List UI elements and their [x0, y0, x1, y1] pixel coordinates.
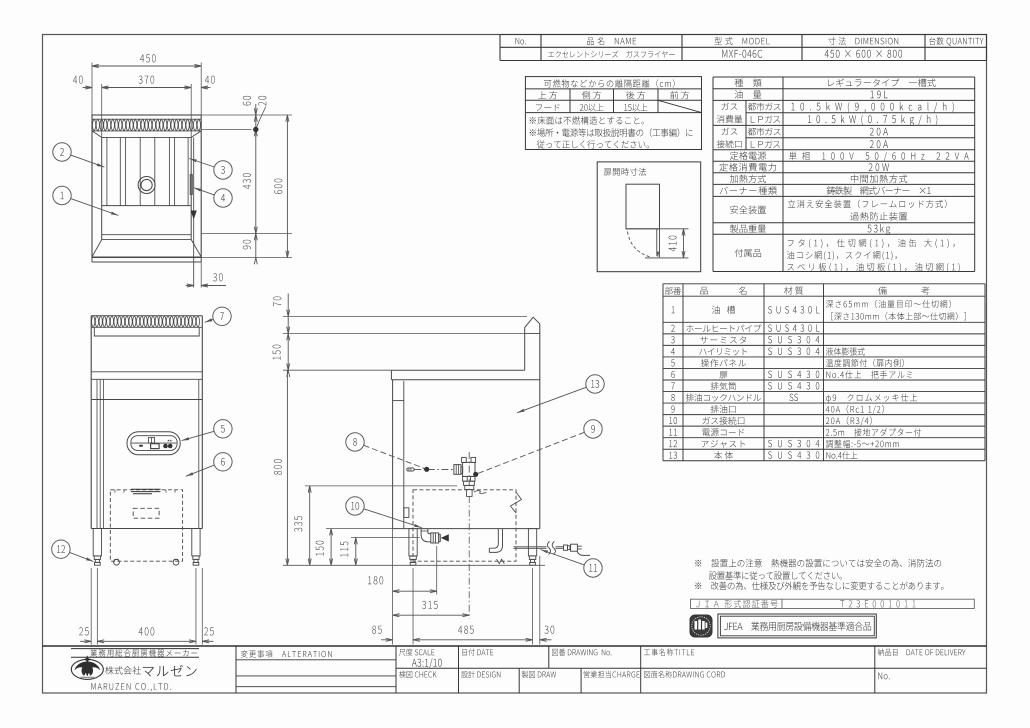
side view: break mark on dashed box — [511, 492, 522, 513]
plan view: drain hole circles — [138, 177, 155, 194]
plan view: thermostat bulb on right wall — [190, 175, 192, 195]
plan view: front shelf edge double lines — [102, 234, 192, 236]
callout 6 (door) — [186, 465, 215, 476]
side view: power cord with plug (item 11) — [514, 546, 547, 548]
open door hanging down (double line) — [656, 229, 658, 256]
plan view: tank floor fin lines — [106, 137, 108, 205]
dimension 410 (door open drop) — [683, 229, 685, 258]
dimension 70 (flue cap height) — [283, 315, 527, 317]
dimension chain 60 / 430 / 90 (depth segments) — [255, 104, 257, 258]
front view: left panel seam lines — [96, 379, 98, 528]
parts row 7 (排気筒) — [671, 383, 675, 390]
dimension 600 (overall depth) — [286, 115, 288, 258]
side view: drain cock handle rod (hidden, dashed) — [414, 468, 454, 470]
door-open side profile rectangle — [626, 184, 660, 229]
title cell — [644, 649, 694, 656]
JIA certification number box — [691, 599, 975, 608]
scale cell — [399, 649, 434, 656]
callout 12 (adjuster) — [70, 552, 94, 561]
plan right-side extension lines — [201, 114, 292, 116]
parts table header — [665, 287, 681, 295]
side view: front face and door face lines — [392, 380, 394, 529]
maker cell: Maruzen company logo block — [71, 648, 199, 650]
side view: gas inlet pipe hook at bottom — [489, 529, 498, 549]
plan view: tank side walls — [101, 137, 103, 239]
side view: flue chimney with cap — [525, 317, 540, 370]
side view: gas connection marker zigzag — [497, 559, 505, 563]
callout 8 (drain cock handle) — [364, 445, 427, 469]
alteration record rows — [236, 659, 396, 661]
front view: body side edges — [90, 316, 92, 529]
door open bottom edge line — [645, 257, 689, 259]
spec rows: labels — [735, 79, 762, 87]
side view: drain outlet elbow with cock handle (item 10) — [421, 529, 431, 542]
header table row: product name / model / dimension — [548, 51, 675, 58]
parts row 10 (ガス接続口) — [669, 417, 677, 424]
front view: oil can casters — [114, 559, 120, 565]
front view: left leg with adjuster foot (item 12) — [93, 529, 101, 556]
title header table (No./NAME/MODEL/DIMENSION/QUANTITY) — [500, 34, 987, 36]
dimension 150 (backsplash height) — [283, 333, 527, 335]
parts row 8 (排油コックハンドル) — [671, 394, 675, 401]
title block outer and grid — [43, 645, 987, 647]
dimension 800 (body height) — [283, 369, 391, 371]
side view: front leg — [409, 529, 417, 556]
side view: ground line extension — [283, 564, 420, 566]
flammables clearance note table — [525, 77, 701, 150]
plan view: tank front edge — [102, 205, 192, 207]
door swing arc (dashed) — [628, 232, 650, 257]
parts row 4 (ハイリミット) — [671, 348, 675, 355]
plan view: flue scallop band (top) — [92, 118, 201, 120]
header table column titles — [515, 38, 525, 45]
dimension 315 (gas valve offset) — [468, 496, 470, 619]
front view: control panel pill (item 5) — [127, 432, 180, 455]
JFEA certified product label box — [718, 614, 876, 638]
parts row 9 (排油口) — [671, 406, 674, 413]
callout 1 (oil tank) — [71, 199, 119, 216]
plan view: hidden feature line with down arrow marker — [193, 137, 195, 287]
maker cell: company name text — [105, 666, 141, 674]
dimension 180 (drain offset) — [392, 529, 394, 645]
front view: body bottom line — [91, 528, 202, 530]
date cell — [462, 649, 493, 656]
dimension 335 (oil can space height) — [305, 485, 457, 487]
callout 2 (hole heat pipe) — [71, 155, 105, 167]
maker cell: swallow bird emblem — [71, 659, 103, 679]
callout 4 (high limit) — [194, 188, 215, 195]
parts row 12 (アジャスト) — [669, 440, 677, 447]
diagonal strike in front-clearance cell — [658, 100, 702, 112]
check / design / draw / charge cells — [399, 671, 437, 678]
front view: oil can label strip — [131, 489, 161, 494]
side view: interior oil-can space (dashed box) — [413, 490, 516, 561]
dimension 450 (overall width) — [91, 63, 93, 116]
side view: drain valve union nut — [454, 465, 461, 475]
parts row 11 (電源コード) — [669, 429, 677, 436]
side view: counter top lines — [391, 369, 524, 371]
parts row 13 (本 体) — [669, 452, 677, 459]
parts row 2 (ホールヒートパイプ) — [671, 325, 675, 332]
flue outlet position dot with 20 label — [253, 127, 258, 132]
parts list table — [663, 283, 985, 285]
side view: door handle bump — [404, 508, 409, 518]
dimension 40 / 370 / 40 (tank offsets) — [101, 84, 103, 137]
parts row 1 (oil tank, two-line remark) — [672, 306, 675, 313]
side view: burner pilot fitting at tank bottom — [465, 485, 474, 489]
delivery date cell — [878, 649, 966, 656]
side view: valve center axis line — [468, 452, 470, 490]
callout 13 (main body) — [517, 387, 586, 413]
callout 10 (gas connection) — [364, 509, 422, 528]
plan view: bottom taper diagonals — [92, 240, 102, 257]
front view: oil can handle hole (dashed) — [133, 508, 159, 518]
dimension 25 / 400 / 25 (front legs) — [90, 568, 92, 645]
side view: drain valve body on tank bottom (items 8/9) — [463, 462, 475, 476]
installation note lines — [530, 116, 644, 124]
drawing number cell — [552, 649, 611, 656]
front view: oil can hidden box (dashed) — [110, 490, 182, 561]
callout 11 (power cord) — [541, 550, 585, 565]
callout 3 (thermistor) — [189, 159, 214, 168]
side view: body bottom line — [393, 528, 540, 530]
side view: back leg — [528, 529, 536, 556]
callout 7 (exhaust duct) — [205, 319, 214, 322]
front view: door top line — [91, 399, 202, 401]
installation caution notes — [695, 559, 941, 567]
callout 5 (control panel) — [182, 431, 215, 440]
front view: right leg with adjuster foot — [192, 529, 200, 556]
dimension 115 (drain height) — [351, 537, 420, 539]
parts row 5 (操作パネル) — [671, 359, 675, 366]
specification table — [713, 76, 975, 78]
door-open dimension box — [597, 162, 701, 272]
callout 9 (drain outlet) — [476, 432, 585, 474]
front view: flue top scallop band — [91, 315, 202, 317]
plan view: trapezoid transition below flue band — [92, 131, 102, 138]
plan view: outer body outline — [92, 115, 201, 258]
front view: backsplash recessed tray lip — [94, 328, 199, 336]
dimension 30 (plan bottom right) — [200, 262, 202, 288]
parts row 6 (扉) — [671, 371, 674, 378]
dimension chain 85 / 485 / 30 (leg positions) — [412, 568, 414, 645]
front view: right panel seam — [198, 379, 200, 528]
dimension 150 (under-body clearance) — [326, 528, 393, 530]
parts row 3 (サーミスタ) — [671, 336, 675, 343]
plan view: front lip line — [92, 261, 201, 263]
spec rows: values — [828, 78, 935, 86]
front view: counter band double line — [91, 371, 202, 373]
JFEA certification stamp logo — [690, 615, 712, 637]
